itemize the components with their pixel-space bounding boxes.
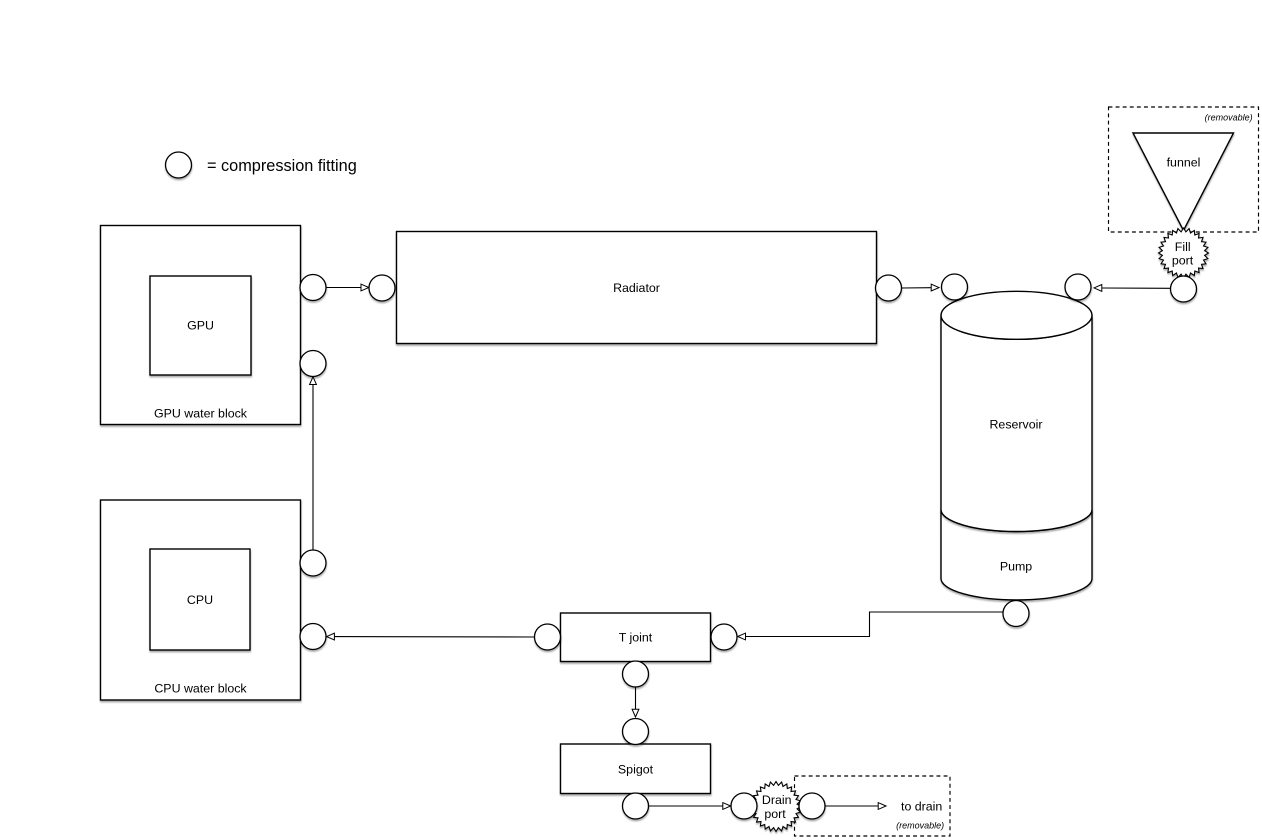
T joint [561,613,711,662]
fitting: below fill port [1171,276,1197,302]
funnel [1133,133,1234,231]
fitting: radiator outlet [876,275,902,301]
fitting: drain-port left [731,793,757,819]
fitting: GPU outlet [300,275,326,301]
to-drain removable dashed box [795,776,951,836]
wire: fill-port fitting to reservoir top-right [1094,285,1171,292]
svg-text:port: port [1172,254,1194,268]
Pump cylinder [941,510,1092,601]
CPU water block [101,500,301,700]
CPU chip [150,549,250,650]
svg-text:(removable): (removable) [1205,113,1253,123]
wire: pump out to T joint right (stepped) [738,612,1003,640]
wire: T joint down to spigot fitting [632,688,639,718]
wire: GPU out to radiator in [326,284,369,291]
svg-text:CPU water block: CPU water block [154,682,247,696]
svg-text:= compression fitting: = compression fitting [207,157,357,175]
fitting: drain-port right [799,793,825,819]
fitting: spigot top [623,719,649,745]
svg-text:Pump: Pump [1000,560,1032,574]
svg-text:T joint: T joint [619,631,653,645]
wire: drain-port right fitting to drain [825,803,886,810]
legend: compression fitting symbol [166,152,192,178]
svg-text:Drain: Drain [762,793,792,807]
svg-text:CPU: CPU [187,593,213,607]
svg-text:funnel: funnel [1167,155,1201,169]
fitting: CPU inlet [300,624,326,650]
svg-text:to drain: to drain [901,799,942,813]
fitting: reservoir top-right [1065,274,1091,300]
fitting: radiator inlet [369,275,395,301]
svg-text:Reservoir: Reservoir [989,418,1042,432]
svg-text:port: port [764,807,786,821]
svg-text:Fill: Fill [1175,240,1191,254]
Drain port (burst seal) [751,782,801,832]
svg-text:GPU water block: GPU water block [154,407,248,421]
fitting: T joint bottom [623,661,649,687]
Radiator [397,232,877,344]
fitting: reservoir top-left [942,274,968,300]
svg-text:Spigot: Spigot [618,763,654,777]
svg-text:Radiator: Radiator [613,281,660,295]
fitting: T joint right [711,624,737,650]
fitting: T joint left [535,624,561,650]
fitting: spigot bottom [623,793,649,819]
Fill port (burst seal) [1159,228,1209,278]
funnel removable dashed box [1109,107,1259,232]
Spigot [561,744,711,794]
svg-text:(removable): (removable) [896,821,944,831]
GPU water block [101,226,301,425]
fitting: GPU inlet [300,351,326,377]
fitting: CPU outlet [300,550,326,576]
wire: CPU out up to GPU in [310,377,317,551]
fitting: pump outlet [1003,601,1029,627]
svg-text:GPU: GPU [187,319,214,333]
wire: spigot out to drain-port left fitting [649,803,731,810]
GPU chip [150,276,251,375]
Reservoir cylinder [941,291,1092,531]
wire: radiator out to reservoir top-left [902,284,940,291]
wire: T joint left to CPU in [327,633,535,640]
